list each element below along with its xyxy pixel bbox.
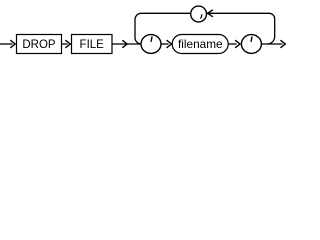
wire: filename to quote circle 2 bbox=[229, 43, 237, 45]
arrowhead into quote circle 2 bbox=[235, 40, 240, 48]
quote glyph 1 bbox=[150, 37, 153, 41]
quote circle 1 bbox=[141, 35, 161, 54]
wire: start line into DROP bbox=[0, 43, 13, 45]
comma glyph bbox=[201, 15, 202, 18]
arrowhead into DROP bbox=[10, 40, 15, 48]
loop left branch: down from top line to main line bbox=[135, 13, 191, 44]
keyword box FILE bbox=[72, 35, 113, 54]
comma circle bbox=[191, 6, 207, 22]
wire: end line with arrow bbox=[262, 43, 283, 45]
wire: circle1 to filename bbox=[162, 43, 169, 45]
placeholder oval filename bbox=[172, 35, 228, 54]
quote circle 2 bbox=[241, 35, 261, 54]
wire: FILE to quote circle 1 bbox=[112, 43, 141, 45]
arrowhead into comma circle (pointing left) bbox=[208, 10, 213, 17]
svg-text:DROP: DROP bbox=[22, 39, 56, 51]
wire: DROP to FILE bbox=[62, 43, 68, 45]
svg-text:filename: filename bbox=[178, 37, 223, 51]
svg-text:FILE: FILE bbox=[80, 39, 105, 51]
quote glyph 2 bbox=[250, 37, 253, 41]
arrowhead into FILE bbox=[65, 40, 70, 48]
arrowhead after FILE bbox=[122, 40, 127, 48]
end arrowhead bbox=[280, 40, 285, 48]
arrowhead into filename bbox=[167, 40, 172, 48]
keyword box DROP bbox=[17, 35, 62, 54]
loop top right line and right branch down bbox=[207, 13, 275, 44]
